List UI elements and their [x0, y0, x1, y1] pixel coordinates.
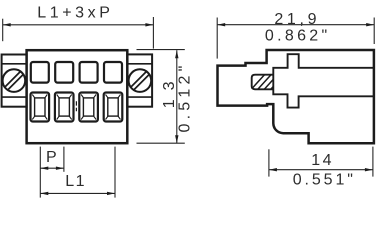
side view inner contact cavity — [273, 54, 374, 107]
upper opening 1 — [31, 62, 49, 83]
dim P arrow right — [56, 167, 64, 170]
dim 14 arrow right — [365, 168, 373, 171]
lower opening 4 — [104, 93, 123, 122]
dim P line — [40, 167, 64, 169]
dim L1+3xP extension right — [152, 17, 154, 49]
svg-text:21,9: 21,9 — [274, 11, 320, 28]
left flange outline — [2, 55, 27, 107]
lower opening 3 — [79, 93, 98, 122]
dim P arrow left — [40, 167, 48, 170]
dim L1+3xP line — [3, 24, 154, 26]
svg-text:0.862": 0.862" — [265, 28, 331, 45]
right flange outline — [127, 54, 152, 106]
right screw head — [129, 69, 152, 92]
dim L1 line — [40, 192, 115, 194]
dim 13 extension top — [137, 49, 185, 51]
left screw head — [3, 69, 26, 92]
upper opening 2 — [55, 62, 73, 83]
lower opening 1 — [31, 93, 50, 122]
dim L1+3xP extension left — [2, 19, 4, 42]
dim 14 extension right — [372, 147, 374, 177]
upper opening 4 — [104, 62, 122, 83]
dim 21,9 arrow left — [217, 23, 225, 26]
svg-text:0.512": 0.512" — [177, 62, 194, 133]
dim 13 arrow up — [175, 50, 178, 58]
dim 14 line — [269, 169, 373, 171]
svg-text:0.551": 0.551" — [293, 172, 356, 189]
front view body outline — [27, 50, 128, 143]
left screw slot — [4, 71, 24, 91]
svg-text:L1+3xP: L1+3xP — [37, 4, 113, 21]
right flange recess top line — [127, 63, 152, 65]
dim 21,9 extension right — [373, 18, 375, 45]
dim L1+3xP arrow right — [145, 23, 153, 26]
dim 13 line — [176, 50, 178, 143]
side view body outline — [218, 50, 374, 143]
dim P extension a — [39, 147, 41, 198]
dim 14 extension left — [268, 149, 270, 176]
left flange recess top line — [2, 63, 27, 65]
dim L1+3xP arrow left — [3, 23, 11, 26]
svg-text:P: P — [46, 149, 57, 166]
dim 21,9 arrow right — [366, 23, 374, 26]
svg-text:14: 14 — [311, 152, 334, 169]
dim 13 extension bottom — [137, 142, 185, 144]
clamping screw shank hatch lines — [247, 72, 287, 94]
dim L1 arrow right — [107, 192, 115, 195]
dim 21,9 extension left — [216, 18, 218, 59]
dim L1 extension right — [114, 147, 116, 198]
right screw slot — [130, 71, 150, 91]
left flange recess bottom line — [2, 96, 27, 98]
dim L1 arrow left — [40, 192, 48, 195]
right flange recess bottom line — [127, 96, 152, 98]
center mark — [75, 101, 77, 111]
dim 13 arrow down — [175, 135, 178, 143]
lower opening 2 — [55, 93, 74, 122]
dim P extension b — [63, 147, 65, 172]
upper opening 3 — [80, 62, 98, 83]
clamping screw shank (hatched) outline — [252, 75, 274, 90]
dim 21,9 line — [217, 24, 374, 26]
svg-text:L1: L1 — [65, 173, 86, 190]
dim 14 arrow left — [269, 168, 277, 171]
